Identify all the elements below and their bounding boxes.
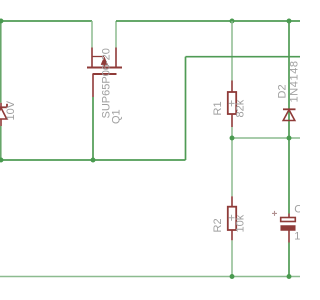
node junction dot mid at D2 bottom — [287, 136, 292, 141]
svg-text:SUP65P06-20: SUP65P06-20 — [101, 48, 113, 118]
wire R1 bottom — [231, 127, 233, 138]
origin cross R2 — [229, 215, 235, 221]
svg-text:10k: 10k — [235, 214, 247, 232]
wire bottom rail GND — [0, 276, 300, 278]
wire D2 top — [288, 21, 290, 138]
node junction dot bottom R2 — [230, 274, 235, 279]
node VIN junction dot top-left — [0, 19, 3, 24]
wire top rail right segment OUT — [116, 20, 300, 22]
svg-text:10uF: 10uF — [294, 231, 300, 243]
svg-text:R2: R2 — [212, 218, 224, 232]
node junction dot at R1 column top — [230, 19, 235, 24]
wire C1 bottom — [288, 243, 290, 277]
diode D1 zener 10V — [0, 103, 7, 126]
wire left rail down to D1 — [0, 21, 2, 103]
node junction dot gate-left corner — [0, 158, 3, 163]
wire gate vertical below Q1 — [92, 97, 94, 160]
transistor Q1 P-MOSFET SUP65P06-20 — [87, 48, 122, 98]
capacitor C1 polarized — [281, 214, 296, 243]
diode D2 1N4148 — [283, 109, 296, 120]
node junction dot gate column — [91, 158, 96, 163]
wire C1 top — [288, 138, 290, 214]
wire gate riser — [185, 57, 187, 160]
wire D1 bottom to gate rail — [0, 126, 2, 160]
node junction dot mid at R1 bottom — [230, 136, 235, 141]
svg-text:82k: 82k — [235, 99, 247, 117]
resistor R1 — [228, 81, 236, 128]
svg-text:1N4148: 1N4148 — [289, 60, 301, 102]
svg-text:D2: D2 — [277, 84, 289, 98]
svg-text:Q1: Q1 — [111, 109, 123, 124]
wire top rail left segment VIN — [1, 20, 92, 22]
wire R2 bottom — [231, 240, 233, 276]
wire gate horizontal — [1, 159, 186, 161]
wire R2 top — [231, 138, 233, 196]
wire gate net horizontal to right edge — [186, 56, 301, 58]
origin cross R1 — [229, 100, 235, 106]
svg-text:C1: C1 — [294, 203, 300, 215]
svg-text:R1: R1 — [212, 101, 224, 115]
wire Q1 source stub — [91, 21, 93, 48]
resistor R2 — [228, 196, 236, 240]
svg-text:10V: 10V — [5, 100, 17, 120]
wire Q1 drain stub — [115, 21, 117, 48]
node junction dot bottom C1 — [287, 274, 292, 279]
wire R1 top — [231, 21, 233, 81]
polarity plus mark C1 — [272, 211, 277, 216]
node junction dot at D2 column top — [287, 19, 292, 24]
wire mid node horizontal — [232, 137, 300, 139]
